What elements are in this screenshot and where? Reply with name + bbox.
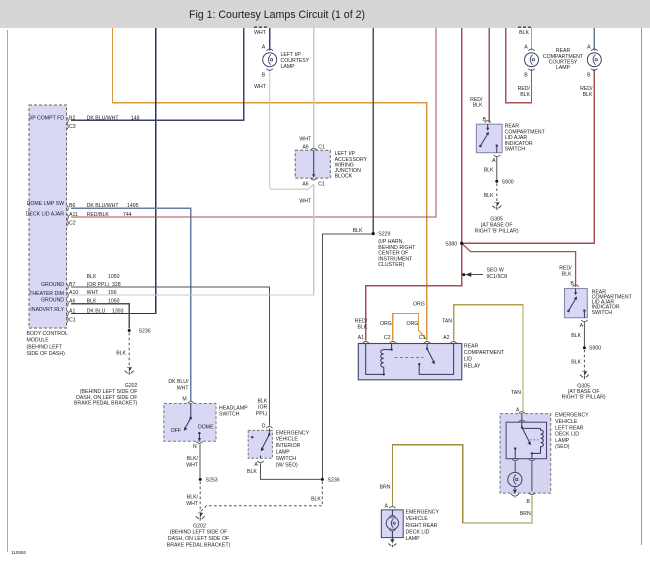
- dashed BLK wire right S900 to G305: [583, 350, 585, 371]
- svg-text:C2: C2: [384, 335, 391, 341]
- right lid ajar switch A pin: [580, 320, 588, 329]
- ORG label on long orange wire: [413, 302, 425, 308]
- svg-text:BODY CONTROL: BODY CONTROL: [27, 331, 69, 337]
- right rear compartment courtesy lamp: [587, 49, 601, 70]
- wire ORG to left rear courtesy lamp A: [531, 28, 533, 50]
- svg-text:MODULE: MODULE: [27, 338, 50, 344]
- svg-text:C2: C2: [69, 221, 76, 227]
- wire to right rear courtesy lamp A from top: [593, 28, 595, 50]
- wire RED/BLK from S380 to right lid ajar switch B: [462, 243, 576, 287]
- left page border: [7, 30, 9, 552]
- headlamp switch lever: [184, 404, 192, 431]
- svg-text:RIGHT 'B' PILLAR): RIGHT 'B' PILLAR): [562, 395, 606, 401]
- svg-text:N: N: [193, 444, 197, 450]
- svg-text:LID: LID: [464, 356, 472, 362]
- G202 bottom caption: [167, 523, 231, 548]
- emergency vehicle interior lamp switch box: [248, 430, 272, 458]
- svg-text:A: A: [516, 408, 520, 414]
- svg-text:WHT: WHT: [177, 386, 190, 392]
- left lid ajar switch A pin: [492, 155, 500, 164]
- svg-text:TAN: TAN: [511, 390, 521, 396]
- svg-text:B: B: [524, 73, 528, 79]
- body control module (BCM) box: [29, 105, 67, 328]
- wire DK BLU/WHT 1495 from BCM B6 to headlamp switch M: [71, 208, 191, 401]
- svg-text:C3: C3: [69, 124, 76, 130]
- dashed BLK wire left S236 to ground G202: [128, 333, 130, 367]
- svg-text:RIGHT REAR: RIGHT REAR: [406, 523, 438, 529]
- G305 left caption: [475, 217, 519, 235]
- IP lamp WHT label above (cut label marks): [254, 27, 267, 36]
- svg-text:BLOCK: BLOCK: [335, 174, 353, 180]
- svg-text:S380: S380: [445, 242, 457, 248]
- rear compartment courtesy lamp caption: [543, 48, 584, 71]
- wire RED/BLK from right rear lamp B down to S380: [462, 69, 595, 243]
- left lid ajar switch internals: [479, 124, 498, 153]
- junction block WHT label below: [299, 199, 312, 205]
- BLK/WHT label below S253: [186, 495, 199, 508]
- svg-text:B: B: [483, 117, 487, 123]
- svg-text:BRAKE PEDAL BRACKET): BRAKE PEDAL BRACKET): [167, 543, 231, 549]
- emergency vehicle right rear deck lid lamp: [381, 504, 403, 538]
- relay switch contacts: [418, 344, 454, 375]
- svg-text:M: M: [182, 397, 186, 403]
- svg-text:B6: B6: [69, 203, 75, 209]
- BLK label below right S900: [571, 360, 581, 366]
- svg-text:WHT: WHT: [299, 199, 312, 205]
- svg-text:(SEO): (SEO): [555, 444, 570, 450]
- wire BLK from emergency interior switch A to S236: [261, 463, 321, 479]
- svg-text:OFF: OFF: [171, 428, 181, 434]
- headlamp switch caption: [219, 406, 248, 418]
- wire RED/BLK S380 stem from top and down to relay A1: [366, 28, 462, 341]
- svg-text:A6: A6: [302, 181, 308, 187]
- svg-text:WHT: WHT: [299, 137, 312, 143]
- svg-text:WHT: WHT: [254, 84, 267, 90]
- svg-text:SWITCH: SWITCH: [592, 310, 613, 316]
- emergency interior switch caption: [276, 430, 310, 468]
- RED/BLK label above left lid ajar switch: [470, 97, 483, 109]
- S229 caption: [378, 239, 416, 268]
- svg-text:S900: S900: [589, 346, 601, 352]
- svg-text:A6: A6: [302, 144, 308, 150]
- svg-text:B: B: [587, 73, 591, 79]
- svg-text:VEHICLE: VEHICLE: [276, 437, 299, 443]
- deck lamp inner switch and coil: [512, 422, 543, 461]
- wire WHT 156 from BCM A10 to junction block bottom: [71, 184, 314, 295]
- IP lamp WHT label below: [254, 84, 267, 90]
- svg-text:EMERGENCY: EMERGENCY: [555, 413, 589, 419]
- relay caption: [464, 344, 505, 370]
- ORG label at relay C1 loop: [406, 321, 418, 327]
- BLK (OR PPL) label above emergency interior switch: [256, 398, 268, 417]
- svg-text:A1: A1: [358, 335, 364, 341]
- BCM pin B6 label and wire label DK BLU/WHT 1495: [69, 203, 139, 209]
- deck lamp bulb: [508, 462, 522, 487]
- ground G202 (left): [125, 368, 134, 376]
- svg-text:DECK LID: DECK LID: [406, 529, 430, 535]
- svg-text:WHT: WHT: [186, 501, 199, 507]
- svg-text:Fig 1: Courtesy Lamps Circuit: Fig 1: Courtesy Lamps Circuit (1 of 2): [189, 9, 365, 21]
- junction block top pin labels A6 C1: [302, 144, 325, 150]
- svg-text:BLK: BLK: [357, 325, 367, 331]
- BCM pin C1 label: [69, 318, 76, 324]
- left rear lamp RED/BLK label below: [518, 86, 531, 98]
- junction block WHT label above: [299, 137, 312, 143]
- BLK label left S900 chain: [484, 167, 494, 173]
- DK BLU/WHT label above headlamp switch: [168, 379, 189, 392]
- BCM internal labels: [26, 116, 65, 313]
- svg-text:S900: S900: [502, 179, 514, 185]
- BCM pin A1 label and wire label DK BLU 1393: [69, 308, 124, 314]
- svg-text:LAMP: LAMP: [406, 536, 421, 542]
- svg-text:1050: 1050: [108, 299, 120, 305]
- svg-text:A: A: [492, 158, 496, 164]
- left IP accessory wiring junction block: [295, 148, 330, 180]
- wire BLK left switch A to S900: [496, 157, 498, 180]
- svg-text:C1: C1: [318, 144, 325, 150]
- svg-text:A6: A6: [69, 299, 75, 305]
- svg-text:A2: A2: [443, 335, 449, 341]
- svg-text:S253: S253: [206, 477, 218, 483]
- svg-text:RIGHT 'B' PILLAR): RIGHT 'B' PILLAR): [475, 228, 519, 234]
- svg-text:VEHICLE: VEHICLE: [555, 419, 578, 425]
- svg-text:LAMP: LAMP: [556, 65, 571, 71]
- BLK label right S900 chain: [571, 333, 581, 339]
- deck lamp assembly pin A: [516, 408, 525, 414]
- svg-text:DECK LID AJAR: DECK LID AJAR: [26, 211, 65, 217]
- svg-text:S236: S236: [139, 329, 151, 335]
- BRN label near deck lamp B: [520, 511, 531, 517]
- svg-text:B: B: [527, 499, 531, 505]
- ground G305 (left): [492, 203, 501, 211]
- RED/BLK label above right lid ajar switch: [559, 265, 572, 277]
- svg-text:(BEHIND LEFT SIDE OF: (BEHIND LEFT SIDE OF: [170, 530, 228, 536]
- left rear lamp pin B label: [524, 73, 528, 79]
- svg-text:ORG: ORG: [413, 302, 425, 308]
- svg-text:BRAKE PEDAL BRACKET): BRAKE PEDAL BRACKET): [74, 401, 138, 407]
- svg-text:BLK: BLK: [257, 398, 267, 404]
- svg-text:A: A: [385, 504, 389, 510]
- svg-text:A: A: [587, 44, 591, 50]
- BLK label below left S900: [484, 193, 494, 199]
- svg-text:A1: A1: [69, 308, 75, 314]
- svg-text:I/P COMPT FD: I/P COMPT FD: [29, 116, 64, 122]
- splice S900 (right): [583, 346, 601, 352]
- svg-text:110592: 110592: [11, 550, 26, 555]
- svg-text:WHT: WHT: [186, 463, 199, 469]
- svg-text:DK BLU/WHT: DK BLU/WHT: [87, 115, 120, 121]
- svg-text:SWITCH: SWITCH: [219, 412, 240, 418]
- right rear lamp RED/BLK label below: [580, 86, 593, 98]
- BCM pin A11 label and wire label RED/BLK 744: [69, 212, 132, 218]
- svg-text:BLK: BLK: [116, 351, 126, 357]
- relay actuator dashed link: [395, 356, 424, 358]
- left rear compartment courtesy lamp: [525, 49, 539, 70]
- svg-text:C1: C1: [69, 318, 76, 324]
- svg-text:CLUSTER): CLUSTER): [378, 262, 404, 268]
- svg-text:B: B: [570, 281, 574, 287]
- BCM pin C3 label: [69, 124, 76, 130]
- headlamp switch DOME contact and arrow to N: [198, 432, 201, 441]
- wire TAN from relay A2 to emergency left deck lamp A: [454, 305, 523, 412]
- svg-text:REAR: REAR: [464, 344, 479, 350]
- relay coil circuit: [366, 344, 393, 376]
- right page border: [641, 28, 643, 545]
- svg-text:BLK: BLK: [571, 360, 581, 366]
- svg-text:BLK: BLK: [520, 92, 530, 98]
- BCM pin A6 label and wire label BLK 1050: [69, 299, 120, 305]
- svg-text:D: D: [262, 424, 266, 430]
- relay pin A1: [358, 335, 369, 343]
- svg-text:DASH, ON LEFT SIDE OF: DASH, ON LEFT SIDE OF: [168, 536, 229, 542]
- svg-text:A: A: [580, 323, 584, 329]
- svg-text:BLK/: BLK/: [187, 495, 199, 501]
- right lid ajar switch caption: [592, 289, 633, 315]
- wire RED/BLK from top to left lid ajar switch B: [488, 28, 490, 123]
- rear compartment lid relay box: [358, 344, 462, 380]
- svg-text:DOME: DOME: [198, 424, 214, 430]
- svg-text:B7: B7: [69, 282, 75, 288]
- svg-text:LEFT REAR: LEFT REAR: [555, 425, 584, 431]
- svg-text:1050: 1050: [108, 274, 120, 280]
- svg-text:744: 744: [123, 212, 132, 218]
- svg-text:SEO W: SEO W: [487, 268, 504, 274]
- svg-text:A: A: [262, 44, 266, 50]
- junction block bottom pin labels A6 C1: [302, 181, 325, 187]
- wire ORG loop from relay C2 to relay C1: [393, 313, 427, 340]
- BLK label below S236: [311, 496, 321, 502]
- svg-text:WHT: WHT: [254, 30, 267, 36]
- emergency interior switch lever: [251, 428, 270, 458]
- svg-text:SIDE OF DASH): SIDE OF DASH): [27, 351, 66, 357]
- ground G202 (bottom): [196, 513, 205, 521]
- deck lamp internal ground arrow: [511, 487, 519, 498]
- left rear lamp BLK label above (cut): [518, 27, 531, 36]
- dashed BLK/WHT wire S253 to ground G202: [199, 482, 201, 513]
- headlamp switch DOME label: [198, 424, 214, 430]
- emergency vehicle left rear deck lid lamp outer box: [500, 414, 551, 494]
- right rear deck lamp caption: [406, 510, 440, 543]
- svg-text:LAMP: LAMP: [555, 438, 570, 444]
- BCM pin C2 label: [69, 221, 76, 227]
- wire BLK from top to splice S229 and to S236: [323, 28, 374, 478]
- svg-text:LAMP: LAMP: [276, 450, 291, 456]
- svg-text:LAMP: LAMP: [281, 64, 296, 70]
- dashed BLK wire S900 to G305: [496, 183, 498, 202]
- svg-text:SWITCH: SWITCH: [276, 456, 297, 462]
- svg-text:SWITCH: SWITCH: [505, 147, 526, 153]
- ground G305 (right): [580, 372, 589, 380]
- BLK label below emergency interior switch A: [247, 469, 257, 475]
- svg-text:EMERGENCY: EMERGENCY: [276, 430, 310, 436]
- svg-text:DOME LMP SW: DOME LMP SW: [27, 201, 64, 207]
- svg-text:BLK: BLK: [353, 228, 363, 234]
- IP lamp pin B label: [262, 73, 266, 79]
- emergency left deck lamp caption: [555, 413, 589, 451]
- headlamp switch M pin: [182, 397, 194, 404]
- svg-text:(AT BASE OF: (AT BASE OF: [481, 222, 513, 228]
- svg-text:A: A: [524, 44, 528, 50]
- svg-text:HEADLAMP: HEADLAMP: [219, 406, 248, 412]
- svg-text:(BEHIND LEFT: (BEHIND LEFT: [27, 344, 63, 350]
- relay pin C1: [419, 335, 430, 343]
- svg-text:A10: A10: [69, 290, 78, 296]
- wire BLK right switch A to S900: [583, 322, 585, 347]
- svg-text:BLK: BLK: [473, 103, 483, 109]
- svg-text:BLK: BLK: [484, 167, 494, 173]
- svg-text:BLK: BLK: [87, 274, 97, 280]
- svg-text:VEHICLE: VEHICLE: [406, 516, 429, 522]
- right lid ajar switch B pin: [570, 281, 578, 287]
- BRN label near right rear deck lamp: [380, 485, 391, 491]
- svg-text:INADVRT RLY: INADVRT RLY: [30, 307, 64, 313]
- right rear lamp pin B label: [587, 73, 591, 79]
- wire ORG from top to relay C1: [112, 28, 426, 341]
- BLK/WHT label above S253: [186, 456, 199, 469]
- svg-text:RELAY: RELAY: [464, 363, 481, 369]
- svg-text:DECK LID: DECK LID: [555, 432, 579, 438]
- svg-text:1393: 1393: [112, 308, 124, 314]
- wire BLK (OR PPL) 328 from BCM B7 to emergency interior switch D: [71, 287, 269, 426]
- svg-text:RED/BLK: RED/BLK: [87, 212, 110, 218]
- svg-text:COURTESY: COURTESY: [281, 58, 310, 64]
- svg-text:ORG: ORG: [406, 321, 418, 327]
- splice S380: [445, 242, 463, 248]
- BLK label at S229: [353, 228, 363, 234]
- emergency interior switch A pin: [254, 461, 263, 468]
- splice S236 (left): [128, 329, 151, 335]
- svg-text:A: A: [254, 462, 258, 468]
- IP lamp pin A label: [262, 44, 266, 50]
- dashed BLK wire from S236 to S253 ground leg: [201, 482, 322, 512]
- left lid ajar switch B pin: [483, 117, 491, 123]
- svg-text:328: 328: [112, 282, 121, 288]
- svg-text:(OR PPL): (OR PPL): [87, 282, 110, 288]
- svg-text:A11: A11: [69, 212, 78, 218]
- svg-text:GROUND: GROUND: [41, 298, 64, 304]
- left rear lamp pin A label: [524, 44, 528, 50]
- svg-text:1495: 1495: [127, 203, 139, 209]
- right rear compartment lid ajar indicator switch box: [565, 289, 588, 318]
- deck lamp leg to pin B: [527, 462, 536, 505]
- wire DK BLU 1393 from BCM A1 to top: [71, 28, 156, 313]
- RED/BLK label at relay A1: [355, 319, 368, 331]
- svg-text:(W/ SEO): (W/ SEO): [276, 462, 298, 468]
- junction block caption: [335, 151, 368, 179]
- svg-text:BLK: BLK: [571, 333, 581, 339]
- TAN label at relay A2: [442, 319, 452, 325]
- svg-text:C1: C1: [419, 335, 426, 341]
- wire WHT from top to junction block top: [313, 28, 315, 150]
- wire RED/BLK 744 from BCM A11 to top: [71, 28, 436, 217]
- svg-text:BLK: BLK: [562, 271, 572, 277]
- headlamp switch box: [164, 404, 216, 442]
- svg-text:(OR: (OR: [258, 405, 268, 411]
- header bar: [0, 0, 650, 28]
- emergency interior switch D pin: [262, 424, 273, 430]
- headlamp switch OFF label: [171, 428, 181, 434]
- svg-text:DK BLU/WHT: DK BLU/WHT: [87, 203, 120, 209]
- svg-text:B2: B2: [69, 115, 75, 121]
- wire BRN from deck lamp B to right rear deck lamp A: [392, 445, 532, 523]
- relay pin A2: [443, 335, 457, 343]
- svg-text:148: 148: [131, 115, 140, 121]
- svg-text:BLK: BLK: [247, 469, 257, 475]
- deck lamp assembly inner relay box: [506, 414, 546, 459]
- svg-text:S229: S229: [378, 232, 390, 238]
- svg-text:BLK: BLK: [311, 496, 321, 502]
- svg-text:S236: S236: [328, 477, 340, 483]
- G202 left caption: [74, 383, 138, 407]
- svg-text:B: B: [262, 73, 266, 79]
- left rear compartment lid ajar indicator switch box: [476, 124, 502, 153]
- splice S236 (right): [321, 477, 340, 483]
- BCM pin A10 label and wire label WHT 156: [69, 290, 117, 296]
- svg-text:GROUND: GROUND: [41, 282, 64, 288]
- BCM pin B2 label and wire label DK BLU/WHT 148: [69, 115, 140, 121]
- svg-text:INTERIOR: INTERIOR: [276, 443, 301, 449]
- page number 110592: [11, 550, 26, 555]
- svg-text:BLK: BLK: [87, 299, 97, 305]
- wire RED/BLK top U to left rear courtesy lamp B: [506, 28, 532, 103]
- svg-text:PPL): PPL): [256, 411, 268, 417]
- svg-text:THEATER DIM: THEATER DIM: [29, 291, 64, 297]
- svg-text:BRN: BRN: [520, 511, 531, 517]
- svg-text:BLK/: BLK/: [187, 456, 199, 462]
- svg-text:G202: G202: [125, 383, 138, 389]
- svg-text:ORG: ORG: [380, 321, 392, 327]
- svg-text:9C1/9C8: 9C1/9C8: [487, 274, 508, 280]
- svg-text:TAN: TAN: [442, 319, 452, 325]
- wire DK BLU/WHT 148 from BCM B2 to top: [71, 28, 244, 120]
- BCM pin brackets: [67, 117, 69, 322]
- BCM pin B7 label and wire label BLK 1050 (OR PPL) 328: [69, 274, 121, 288]
- svg-text:BRN: BRN: [380, 485, 391, 491]
- svg-text:BLK: BLK: [519, 30, 529, 36]
- left lid ajar switch caption: [505, 124, 546, 153]
- svg-text:DK BLU: DK BLU: [87, 308, 106, 314]
- relay pin C2: [384, 335, 396, 343]
- svg-text:G202: G202: [193, 523, 206, 529]
- BLK label on left S236 ground leg: [116, 351, 126, 357]
- wire BLK/WHT from headlamp N to S253: [199, 444, 201, 477]
- splice S900 (left): [495, 179, 513, 185]
- svg-text:RED/: RED/: [559, 265, 572, 271]
- svg-text:C1: C1: [318, 181, 325, 187]
- SEO W 9C1/9C8 arrow annotation: [462, 268, 507, 280]
- TAN label above emergency deck lamp: [511, 390, 521, 396]
- svg-text:DK BLU/: DK BLU/: [168, 379, 189, 385]
- right lid ajar switch internals: [567, 289, 585, 318]
- headlamp switch N pin: [193, 442, 203, 450]
- svg-text:EMERGENCY: EMERGENCY: [406, 510, 440, 516]
- svg-text:WHT: WHT: [87, 290, 100, 296]
- BCM caption: [27, 331, 69, 357]
- svg-text:BLK: BLK: [484, 193, 494, 199]
- svg-text:156: 156: [108, 290, 117, 296]
- right rear deck lamp ground arrow: [388, 538, 396, 548]
- ORG label at relay C2: [380, 321, 392, 327]
- wire to left IP courtesy lamp A from top: [269, 28, 271, 50]
- G305 right caption: [562, 383, 606, 400]
- IP lamp caption: [281, 52, 310, 70]
- right rear lamp pin A label: [587, 44, 591, 50]
- splice S229: [372, 232, 391, 238]
- left IP courtesy lamp: [263, 49, 277, 70]
- splice S253: [199, 477, 218, 483]
- svg-text:BLK: BLK: [583, 92, 593, 98]
- svg-text:COMPARTMENT: COMPARTMENT: [464, 350, 505, 356]
